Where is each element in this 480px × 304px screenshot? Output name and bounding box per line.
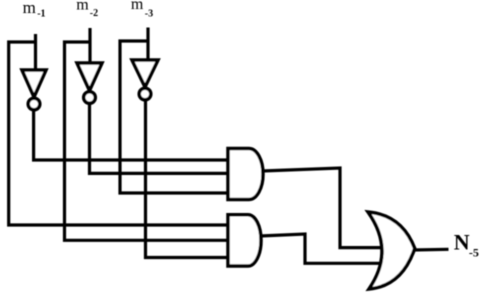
svg-text:m: m	[76, 0, 89, 14]
wire AND1 output to OR top input	[262, 168, 381, 248]
input label m-1	[23, 0, 46, 20]
wire inverter2 output to AND1 input 2	[90, 104, 229, 173]
inverter U2 triangle	[77, 63, 102, 91]
wire m-2 bypass branch to AND2 input 2	[65, 42, 229, 240]
svg-text:-1: -1	[37, 9, 45, 20]
wire m-2 input lead	[88, 28, 91, 63]
output label N-5	[454, 229, 479, 259]
input label m-2	[76, 0, 98, 19]
wire AND2 output to OR bottom input	[260, 234, 381, 263]
wire m-3 input lead	[146, 28, 149, 61]
wire inverter3 output to AND2 input 3	[146, 101, 229, 258]
svg-text:N: N	[454, 229, 470, 254]
wire OR output to N-5	[413, 248, 449, 252]
svg-text:m: m	[131, 0, 144, 13]
OR gate G3	[368, 212, 415, 289]
svg-text:-5: -5	[469, 246, 479, 260]
wire m-1 bypass branch to AND2 input 1	[9, 42, 228, 225]
wire m-1 input lead	[34, 34, 37, 70]
inverter U2 bubble	[84, 92, 96, 104]
input label m-3	[131, 0, 153, 19]
svg-text:-2: -2	[90, 8, 98, 19]
inverter U1 triangle	[22, 70, 46, 97]
inverter U1 bubble	[28, 98, 40, 110]
inverter U3 triangle	[132, 60, 158, 87]
AND gate G2 (bottom)	[228, 215, 261, 266]
svg-text:m: m	[23, 0, 36, 17]
wire inverter1 output to AND1 input 1	[34, 110, 228, 160]
AND gate G1 (top)	[228, 149, 263, 200]
svg-text:-3: -3	[145, 8, 153, 19]
inverter U3 bubble	[139, 88, 151, 100]
wire m-3 bypass branch to AND1 input 3	[120, 41, 228, 193]
